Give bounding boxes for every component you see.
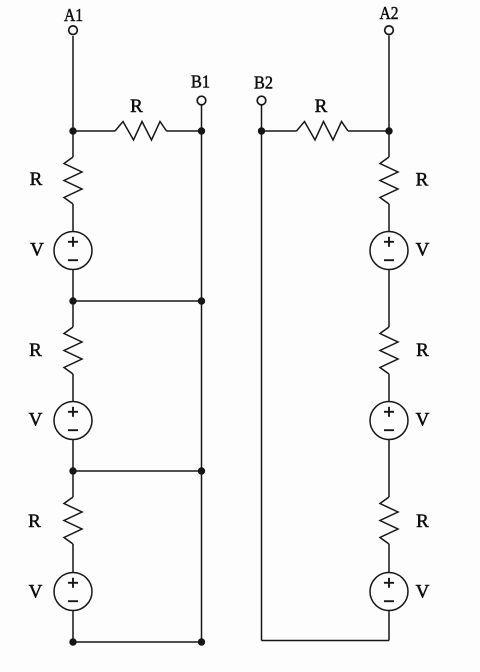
svg-text:V: V: [416, 410, 430, 431]
svg-text:V: V: [29, 582, 43, 603]
svg-text:R: R: [416, 511, 429, 532]
svg-text:B1: B1: [191, 72, 210, 92]
svg-text:V: V: [416, 240, 430, 261]
svg-text:R: R: [416, 340, 429, 361]
svg-text:V: V: [416, 582, 430, 603]
svg-text:A1: A1: [64, 5, 83, 25]
svg-text:B2: B2: [254, 73, 273, 93]
svg-text:A2: A2: [380, 3, 399, 23]
svg-text:R: R: [29, 340, 42, 361]
svg-text:R: R: [130, 96, 143, 117]
svg-text:R: R: [30, 169, 43, 190]
svg-text:R: R: [416, 170, 429, 191]
svg-text:R: R: [315, 96, 328, 117]
svg-text:V: V: [29, 410, 43, 431]
svg-text:V: V: [30, 240, 44, 261]
svg-text:R: R: [28, 511, 41, 532]
